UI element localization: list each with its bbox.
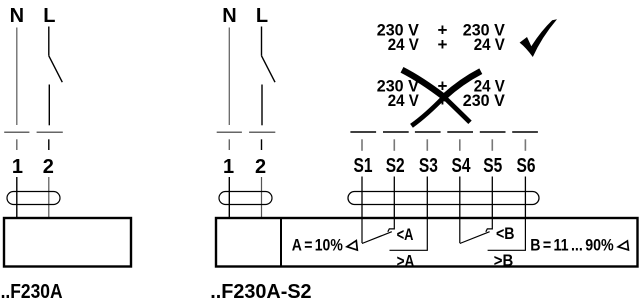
svg-text:<B: <B [496,224,515,243]
terminal dash S1 [350,131,376,133]
terminal stub 1 (diagram 2) [228,139,230,150]
svg-text:24 V: 24 V [388,91,420,110]
wire L upper (diagram 2) [261,27,263,56]
wire N (diagram 2) [228,28,230,126]
wire L lower (diagram 1) [48,85,50,126]
switch B pole wire (S4) [459,218,461,243]
svg-text:2: 2 [43,156,54,178]
svg-text:N: N [222,5,236,27]
wire terminal1 to box (diagram 1) [16,177,18,217]
terminal stub S4 [459,139,461,151]
actuator box (diagram 2) [216,218,638,267]
cable loop oval (S terminals) [348,192,539,205]
terminal stub 1 (diagram 1) [16,139,18,150]
terminal dash S5 [480,131,506,133]
switch A blade [362,232,392,244]
svg-text:>A: >A [397,251,415,270]
svg-text:24 V: 24 V [388,35,420,54]
actuator box (diagram 1) [4,218,131,267]
svg-text:1: 1 [12,156,23,178]
switch A contact S2 with hook [388,218,395,232]
switch B contact S5 with hook [486,218,493,232]
terminal stub S1 [361,139,363,151]
terminal stub 2 (diagram 1) [48,139,50,150]
terminal dash S6 [512,131,538,133]
terminal stub S6 [524,139,526,151]
svg-text:2: 2 [255,156,266,178]
cable loop oval (diagram 2 power) [219,192,272,205]
svg-text:..F230A-S2: ..F230A-S2 [210,281,311,303]
svg-text:..F230A: ..F230A [1,281,63,303]
cable loop oval (diagram 1) [7,192,60,205]
svg-text:B = 11 ... 90%: B = 11 ... 90% [530,236,614,255]
wire S2 to box [393,177,395,218]
switch B blade [460,232,490,244]
svg-text:L: L [256,5,268,27]
switch B contact S6 wire [488,218,526,250]
switch A pole wire (S1) [361,218,363,243]
wire S1 to box [361,177,363,218]
terminal dash 1 (diagram 1) [4,131,29,133]
wire S5 to box [491,177,493,218]
wire terminal2 to box (diagram 2) [261,177,263,217]
svg-text:S4: S4 [452,155,472,177]
wire terminal2 to box (diagram 1) [48,177,50,217]
svg-text:1: 1 [223,156,234,178]
wire L upper (diagram 1) [48,27,50,56]
wire S6 to box [524,177,526,218]
terminal stub S3 [426,139,428,151]
svg-text:S2: S2 [386,155,405,177]
triangle pointer B [618,241,628,250]
svg-text:L: L [43,5,55,27]
svg-text:A = 10%: A = 10% [292,236,343,255]
svg-text:S3: S3 [419,155,438,177]
wire S3 to box [426,177,428,218]
terminal dash S2 [383,131,409,133]
svg-text:S5: S5 [483,155,502,177]
switch A contact S3 wire [390,218,428,250]
terminal dash 2 (diagram 1) [37,131,63,133]
terminal dash 2 (diagram 2) [249,131,275,133]
big cross X over invalid rows [402,70,444,97]
terminal dash 1 (diagram 2) [217,131,242,133]
box divider line (diagram 2) [280,218,282,267]
wire S4 to box [459,177,461,218]
terminal stub 2 (diagram 2) [261,139,263,150]
wire L lower (diagram 2) [261,85,263,126]
terminal dash S4 [447,131,473,133]
switch blade on L (diagram 1) [49,56,63,82]
svg-text:24 V: 24 V [474,35,506,54]
svg-text:S1: S1 [354,155,373,177]
svg-text:>B: >B [494,251,514,270]
checkmark [520,19,557,57]
wire N (diagram 1) [16,28,18,126]
switch blade on L (diagram 2) [262,56,276,82]
svg-text:+: + [438,35,448,54]
svg-text:S6: S6 [517,155,536,177]
triangle pointer A [347,241,357,250]
wire terminal1 to box (diagram 2) [228,177,230,217]
terminal stub S2 [393,139,395,151]
terminal dash S3 [415,131,441,133]
svg-text:230 V: 230 V [463,91,506,110]
terminal stub S5 [491,139,493,151]
svg-text:<A: <A [397,225,414,244]
svg-text:N: N [10,5,24,27]
